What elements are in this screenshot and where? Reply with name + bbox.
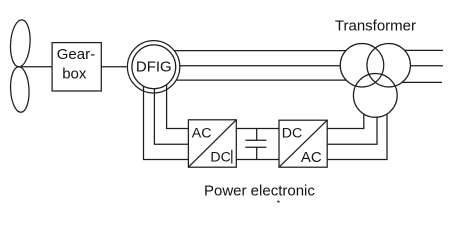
turbine blade top (9, 19, 32, 67)
wire converter output phase 3 (327, 114, 387, 160)
svg-text:DC: DC (210, 150, 231, 166)
gearbox box (52, 43, 101, 91)
converter U2 diagonal (279, 120, 327, 167)
wire stator phase 2 (180, 65, 340, 67)
wire rotor phase 3 (144, 86, 189, 159)
capacitor C1 bottom lead (256, 147, 258, 159)
capacitor C1 top plate (245, 139, 266, 141)
wire converter output phase 1 (327, 114, 364, 128)
transformer winding right circle (367, 43, 411, 87)
wire rotor phase 2 (154, 89, 188, 145)
converter U2 DC/AC box (279, 120, 327, 167)
svg-text:Gear-: Gear- (57, 46, 95, 63)
wire DC bus top (236, 127, 279, 129)
svg-text:Power electronic: Power electronic (204, 182, 315, 199)
transformer winding left circle (340, 43, 384, 87)
svg-text:AC: AC (192, 126, 212, 142)
wire stator phase 3 (176, 79, 346, 81)
svg-text:Transformer: Transformer (335, 18, 416, 35)
wire grid phase 3 (402, 81, 442, 83)
label Gearbox (57, 46, 95, 82)
capacitor C1 bottom plate (245, 146, 266, 148)
converter U1 diagonal (188, 120, 236, 167)
svg-text:DC: DC (282, 125, 303, 141)
wire grid phase 1 (405, 49, 443, 51)
wire shaft gearbox to DFIG (101, 66, 127, 68)
artifact dot below label (277, 201, 279, 203)
wire stator phase 1 (174, 50, 346, 52)
text cursor artifact (231, 150, 233, 164)
svg-text:AC: AC (301, 149, 322, 166)
generator DFIG inner circle (132, 45, 176, 89)
turbine blade bottom (9, 66, 30, 113)
svg-text:DFIG: DFIG (136, 59, 172, 76)
wire converter output phase 2 (327, 117, 377, 144)
transformer winding bottom circle (353, 74, 397, 118)
converter U1 AC/DC box (188, 120, 236, 167)
wire DC bus bottom (236, 159, 279, 161)
wire shaft hub to gearbox (20, 66, 52, 68)
capacitor C1 top lead (256, 128, 258, 140)
wire rotor phase 1 (167, 85, 189, 129)
generator DFIG outer circle (127, 41, 179, 93)
svg-text:box: box (62, 65, 87, 82)
wire grid phase 2 (410, 65, 443, 67)
